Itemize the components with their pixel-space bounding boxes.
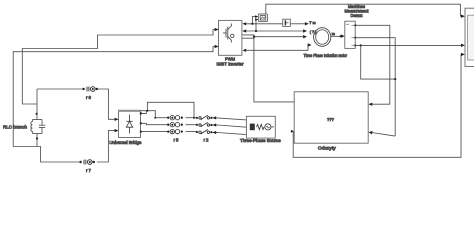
diode icon inside bridge <box>126 115 132 134</box>
universal bridge U1 <box>119 111 141 138</box>
wire branch out3 down and over <box>361 45 396 79</box>
svg-text:m: m <box>332 32 335 36</box>
wire r6 run <box>37 88 83 90</box>
demux inner port marks <box>346 24 354 45</box>
node dots bridge right <box>140 110 195 133</box>
wire gate net to PWM p1 <box>246 17 257 24</box>
measurement r5 row2 <box>170 123 180 127</box>
stub bracket at PWM p3 <box>242 35 254 38</box>
wire phase row A <box>155 117 167 119</box>
breaker r2 row1 <box>199 115 210 120</box>
svg-text:???: ??? <box>327 117 335 122</box>
small block A (top) <box>258 14 267 22</box>
svg-text:(?): (?) <box>310 30 317 34</box>
wire r7 run to bridge <box>97 131 118 162</box>
wire demux out3 long to scope p2 <box>355 44 461 46</box>
IGBT icon inside <box>223 24 234 43</box>
node dot on out3 <box>360 44 362 46</box>
arrow into controller left port <box>291 130 294 133</box>
arrow into inverter left in1 <box>215 28 219 31</box>
wire net PWM p4 to machine in4 <box>246 45 309 50</box>
svg-text:Universal Bridge: Universal Bridge <box>109 140 142 145</box>
current measurement r7 <box>84 160 92 165</box>
svg-text:r2: r2 <box>204 137 210 142</box>
arrow into machine in1 <box>305 22 309 25</box>
measurement r5 row1 <box>170 116 180 120</box>
arrows into r2 chain <box>212 116 216 119</box>
arrow into bridge in1 <box>115 118 119 121</box>
wire bridge out1 stub <box>141 111 147 114</box>
wire phase row C <box>141 131 168 133</box>
wire demux out1 to controller port1 <box>355 25 390 104</box>
svg-text:Three Phase Induction motor: Three Phase Induction motor <box>304 53 348 58</box>
wire bridge top-right corner run <box>141 111 156 118</box>
svg-text:RLC branch: RLC branch <box>3 125 27 130</box>
wire net p3 to machine in3 <box>254 36 303 38</box>
svg-text:r6: r6 <box>86 95 92 100</box>
wire feedback loop bottom <box>293 54 461 157</box>
node dot p1 <box>251 23 253 25</box>
svg-text:Odczyty: Odczyty <box>318 146 337 151</box>
wire net to PWM p2 and machine in2 <box>246 30 304 32</box>
scope block at right edge <box>465 8 474 66</box>
wire bypass over r5 row1 <box>147 102 194 117</box>
breaker r2 row2 <box>199 122 210 127</box>
bridge thick top edge <box>118 110 141 112</box>
arrow into scope p3 <box>461 53 465 56</box>
wire machine m to demux <box>331 35 342 37</box>
wire DC+ top run to inverter <box>22 30 218 105</box>
arrow into inverter left in2 <box>215 45 219 48</box>
diagonal leads to source A/B/C <box>218 118 247 120</box>
svg-text:r5: r5 <box>174 137 180 142</box>
svg-text:Tm: Tm <box>309 21 316 25</box>
measurement r5 row3 <box>170 129 180 133</box>
node junction dots left DC bus <box>36 113 39 140</box>
svg-text:Demux: Demux <box>351 13 364 18</box>
current measurement r6 <box>87 87 95 92</box>
wire DC- top run to inverter <box>13 47 218 163</box>
arrow into PWM right p1 <box>242 22 246 25</box>
machines measurement demux block <box>345 21 355 48</box>
source icon: transformer square <box>250 124 255 131</box>
wire demux out2 to controller port2 <box>355 38 395 136</box>
svg-text:Three-Phase Source: Three-Phase Source <box>240 138 281 143</box>
asynchronous machine circles <box>314 28 331 47</box>
wire DC+ vertical node bus <box>36 89 38 120</box>
arrow into scope p1 <box>461 15 465 18</box>
source icon: winding zigzag <box>257 124 265 129</box>
three-phase source block <box>246 116 275 138</box>
wire diagonal into controller port2 <box>371 133 395 137</box>
PWM IGBT inverter block <box>219 20 242 55</box>
controller block (Odczyty) <box>294 92 368 143</box>
svg-text:r7: r7 <box>86 168 92 173</box>
wire controller feed vertical <box>254 37 295 102</box>
wire Tm run to machine <box>252 23 282 25</box>
source icon: AC circle <box>265 124 271 130</box>
svg-text:IGBT Inverter: IGBT Inverter <box>217 62 245 67</box>
wire phase row B <box>141 123 168 124</box>
arrows into block A <box>255 15 258 18</box>
arrow into bridge in2 <box>115 129 119 132</box>
small block B (rate limiter) <box>283 19 291 26</box>
capacitor/inductor parallel RLC branch icon <box>31 120 45 134</box>
breaker r2 row3 <box>199 130 210 135</box>
wire RLC bottom stem <box>36 134 38 147</box>
wire top long run to scope <box>266 4 462 16</box>
